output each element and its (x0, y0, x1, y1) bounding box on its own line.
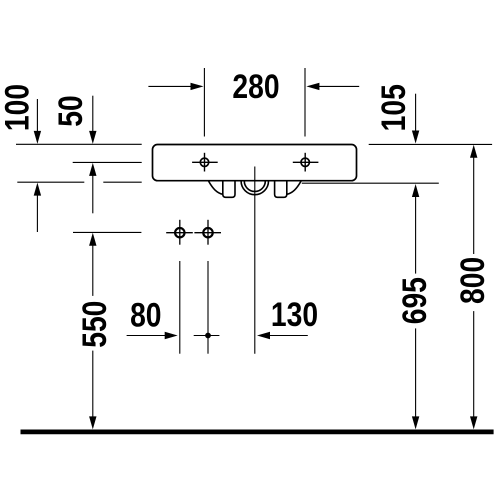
svg-text:50: 50 (50, 95, 89, 126)
svg-text:130: 130 (271, 294, 318, 333)
svg-text:550: 550 (74, 301, 113, 348)
svg-text:80: 80 (130, 295, 161, 334)
svg-text:100: 100 (0, 84, 36, 131)
svg-text:695: 695 (394, 277, 433, 324)
svg-text:105: 105 (373, 84, 412, 131)
svg-text:280: 280 (232, 66, 279, 105)
svg-text:800: 800 (452, 257, 491, 304)
